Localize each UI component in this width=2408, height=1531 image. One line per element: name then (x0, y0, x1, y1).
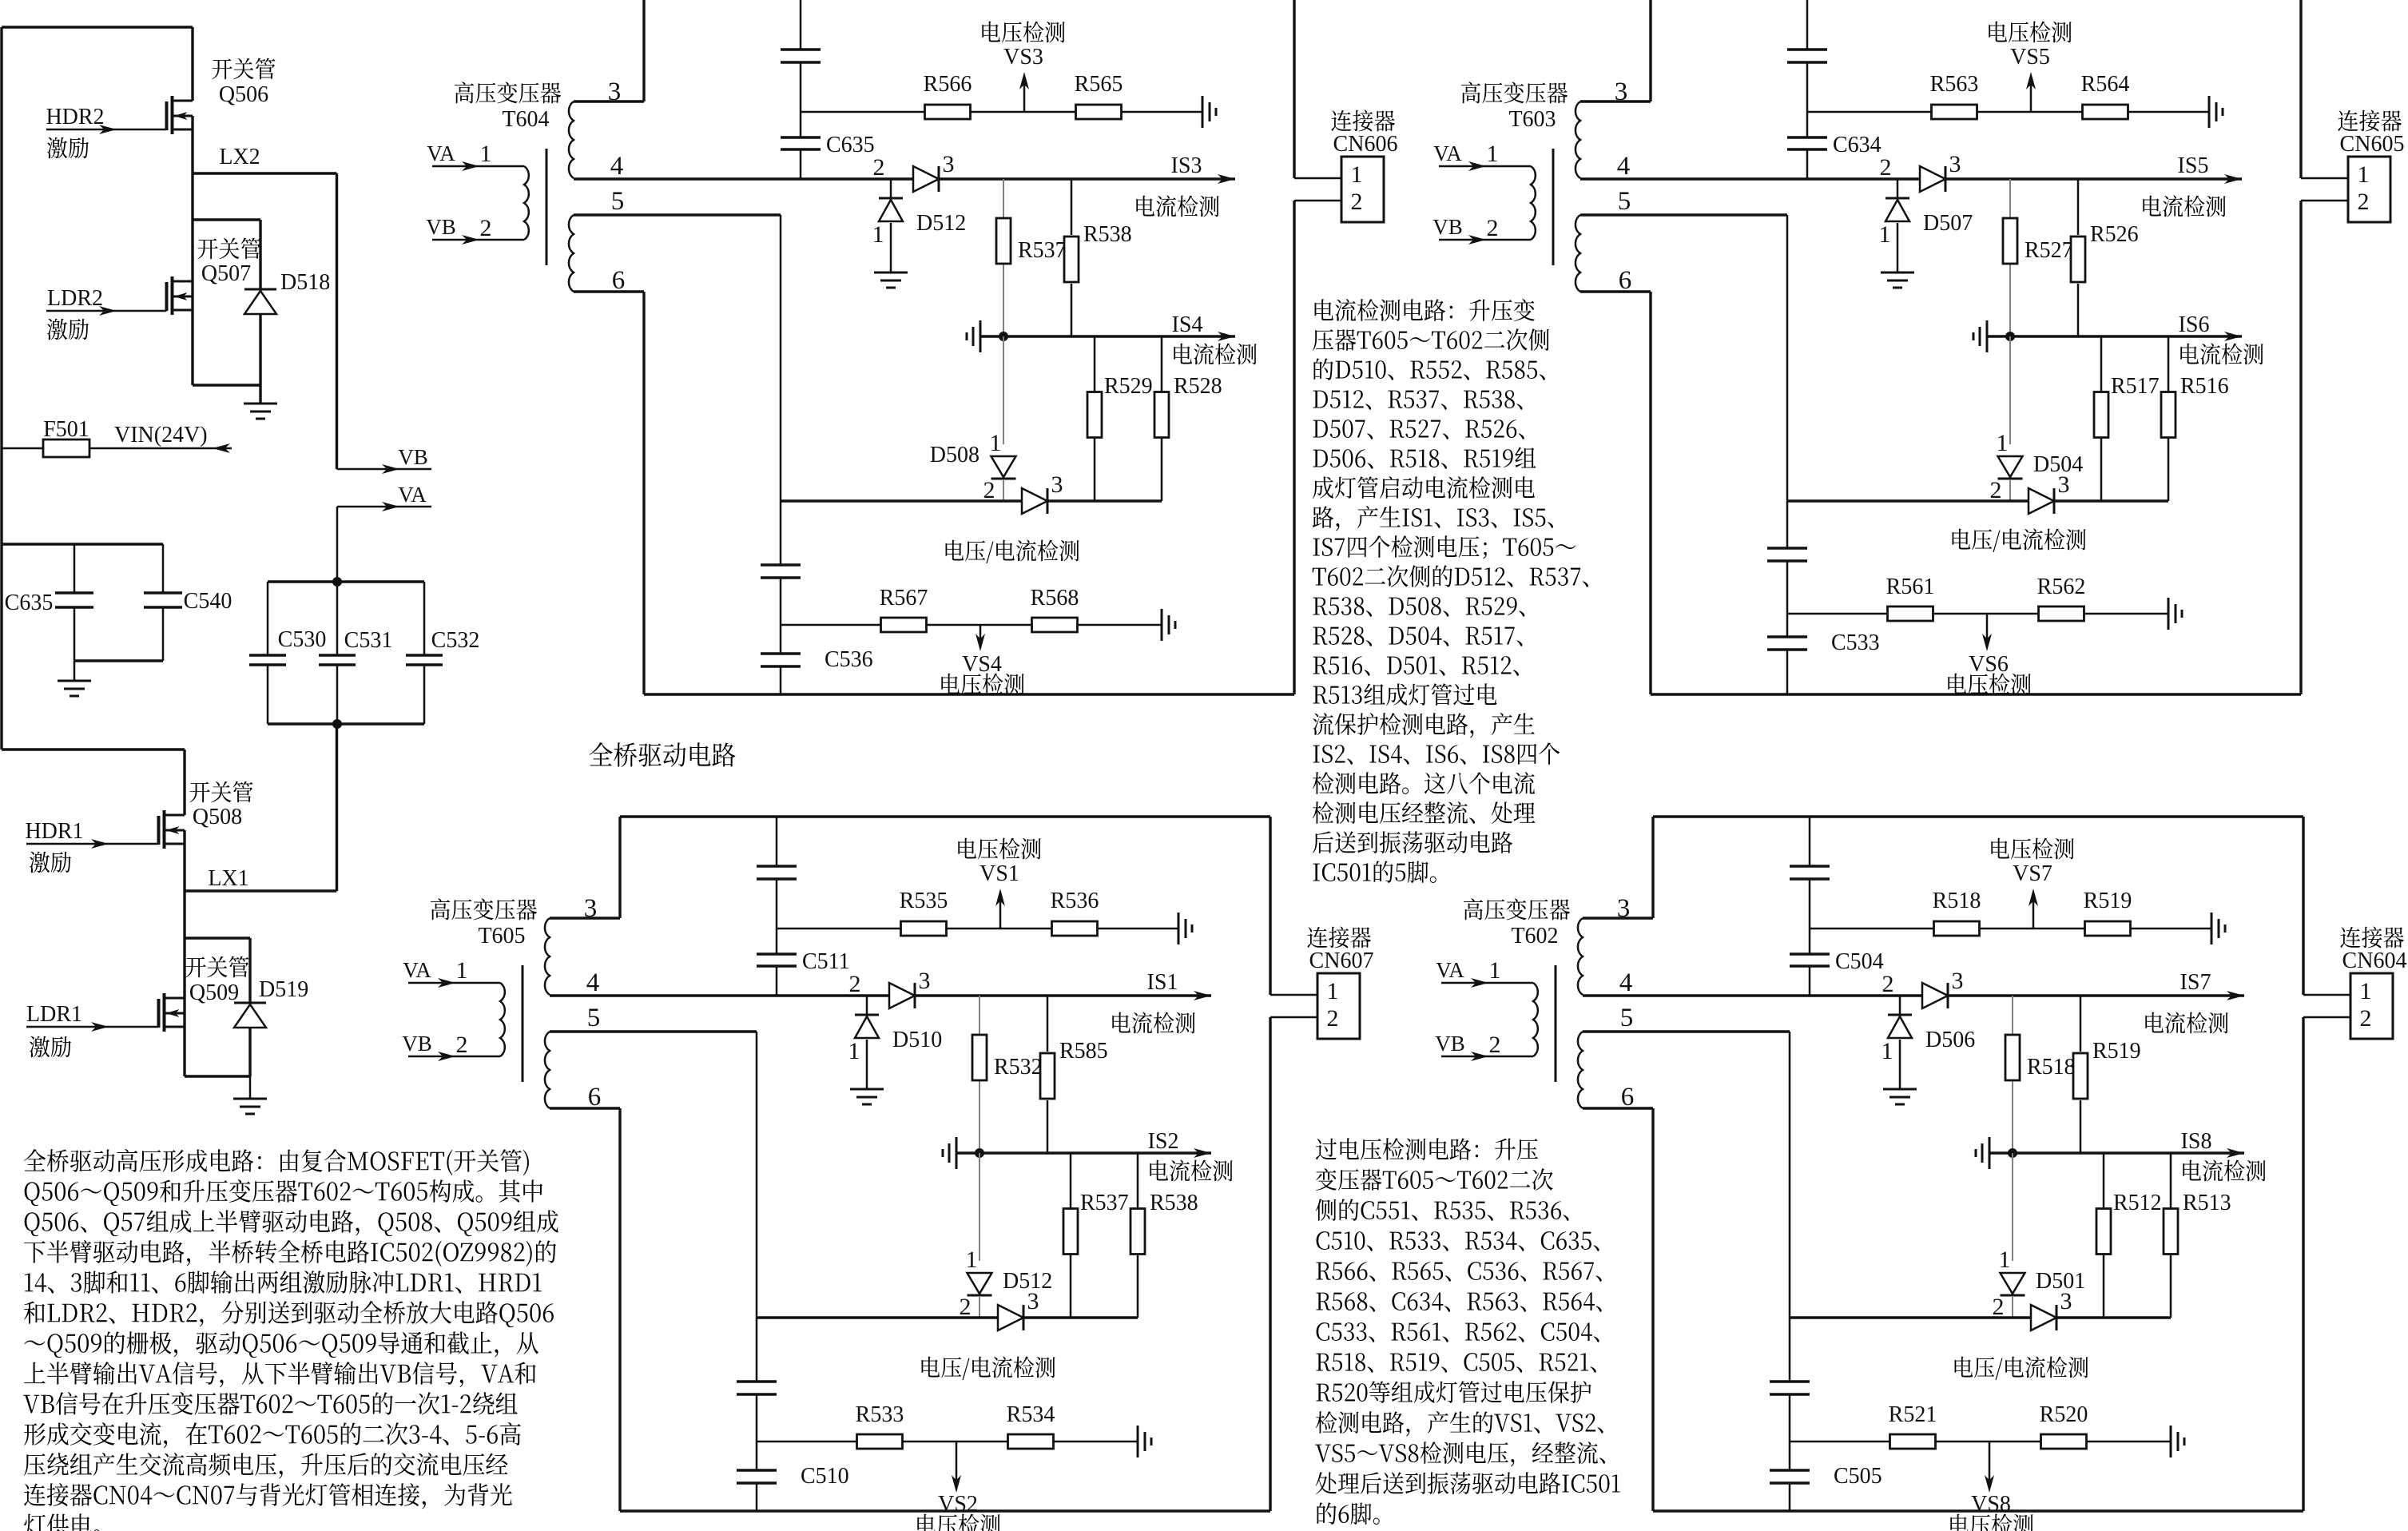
svg-text:2: 2 (480, 215, 492, 241)
pin 6 label (612, 266, 626, 295)
svg-text:CN607: CN607 (1309, 948, 1374, 973)
capacitor mid (unlabeled) (1767, 548, 1807, 561)
node VA bottom (332, 719, 342, 729)
svg-text:3: 3 (1949, 151, 1961, 177)
svg-text:2: 2 (1993, 1294, 2005, 1320)
svg-text:IS6: IS6 (2179, 312, 2210, 337)
svg-text:4: 4 (586, 968, 600, 997)
diode D508 (930, 430, 1016, 503)
svg-text:IS1: IS1 (1147, 970, 1178, 995)
pin 3 label (1615, 78, 1628, 106)
svg-text:D510: D510 (892, 1028, 942, 1052)
ground VS row (2209, 96, 2223, 128)
wire VS row (1807, 111, 2209, 113)
wire D-mid column (2012, 1153, 2013, 1318)
svg-text:Q509: Q509 (189, 980, 239, 1005)
resistor R513 (2164, 1153, 2231, 1318)
svg-text:VS8: VS8 (1971, 1492, 2011, 1517)
ground VS row (1202, 96, 1216, 128)
label IS bottom (1172, 312, 1257, 364)
capacitor top (unlabeled) (1787, 50, 1827, 62)
wire pin3 (550, 817, 620, 918)
svg-text:R563: R563 (1930, 72, 1979, 97)
svg-text:T602: T602 (1511, 924, 1558, 948)
svg-text:1: 1 (1351, 161, 1363, 188)
ground VS row (1178, 913, 1192, 944)
transistor Q509 (159, 993, 185, 1032)
svg-text:C505: C505 (1834, 1464, 1882, 1489)
svg-text:5: 5 (1620, 1004, 1634, 1032)
transformer T604 secondary coil 5-6 (569, 215, 574, 292)
wire connector pins (1270, 995, 1317, 1017)
label IS top (2143, 153, 2225, 217)
wire Q506-Q507 rail (191, 116, 193, 385)
node LX2 (219, 145, 260, 169)
wire IS bottom (980, 332, 1235, 341)
wire bottom border (1653, 1509, 2303, 1512)
wire D-mid column (2009, 336, 2011, 501)
svg-text:T604: T604 (502, 107, 549, 132)
diode D506 (1881, 996, 1976, 1089)
transformer T605 core (522, 965, 524, 1082)
wire connector pins (1294, 178, 1341, 201)
transformer T604 secondary coil 3-4 (569, 101, 574, 178)
svg-text:1: 1 (1881, 1038, 1893, 1064)
ground under Q507 (244, 385, 277, 419)
svg-text:HDR2: HDR2 (46, 105, 104, 129)
label Q506 (212, 58, 275, 107)
arrow VS1 (958, 838, 1040, 929)
svg-text:D518: D518 (280, 270, 330, 295)
wire HDR2 gate (46, 125, 167, 134)
transformer T605 secondary coil 5-6 (545, 1032, 550, 1108)
svg-text:2: 2 (849, 971, 861, 997)
wire VB (337, 445, 432, 474)
wire IS bottom (1989, 1148, 2244, 1158)
resistor R566 (924, 72, 972, 119)
svg-text:CN606: CN606 (1333, 132, 1398, 157)
diode D512 (960, 1247, 1053, 1320)
svg-text:HDR1: HDR1 (25, 819, 83, 844)
svg-text:C504: C504 (1835, 949, 1884, 974)
svg-text:4: 4 (1619, 968, 1633, 997)
wire VA primary T603 (1433, 141, 1531, 171)
arrow VS8 (1950, 1442, 2032, 1531)
wire pin4 main (1580, 174, 2242, 184)
resistor R585 (1040, 996, 1108, 1153)
svg-text:5: 5 (1618, 187, 1631, 216)
svg-text:1: 1 (1487, 141, 1499, 167)
svg-text:VIN(24V): VIN(24V) (114, 423, 208, 447)
svg-text:C540: C540 (184, 589, 232, 614)
pin 6 label (1619, 266, 1632, 295)
svg-text:VA: VA (403, 958, 431, 982)
svg-text:1: 1 (872, 221, 884, 248)
wire C-bank bottom rail (268, 722, 424, 725)
svg-text:2: 2 (1327, 1005, 1339, 1032)
svg-text:D508: D508 (930, 443, 979, 467)
wire pin4 main (1583, 991, 2244, 1000)
fuse F501 (2, 417, 232, 457)
svg-text:R537: R537 (1080, 1191, 1129, 1215)
label LDR1 (26, 1002, 82, 1057)
wire VB primary T604 (426, 215, 524, 245)
transformer T603 secondary coil 5-6 (1576, 215, 1580, 292)
diode D519 (234, 977, 308, 1028)
capacitor top (unlabeled) (757, 866, 797, 879)
node IS bottom (975, 1148, 984, 1158)
transformer T603 primary coil (1531, 166, 1536, 240)
wire pin5 (574, 215, 781, 694)
capacitor C511 (757, 949, 850, 974)
svg-text:LX1: LX1 (208, 866, 248, 891)
resistor R533 (856, 1402, 904, 1449)
wire bottom border (620, 1509, 1270, 1512)
wire lower detect (1790, 1316, 2171, 1318)
resistor R512 (2096, 1153, 2162, 1318)
svg-text:1: 1 (456, 957, 468, 984)
svg-text:C533: C533 (1831, 630, 1880, 655)
label IS bottom (1148, 1129, 1233, 1181)
svg-text:C532: C532 (431, 628, 480, 653)
transformer T603 label (1461, 82, 1568, 132)
wire Q508-Q509 rail (183, 830, 185, 1076)
label node 2 (1882, 971, 1894, 997)
wire VS row (801, 111, 1202, 113)
svg-text:C511: C511 (802, 949, 850, 974)
wire cap column (1809, 817, 1811, 996)
transformer T603 secondary coil 3-4 (1576, 101, 1580, 178)
resistor R562 (2037, 575, 2086, 621)
wire cap column (800, 0, 802, 179)
capacitor C533 (1767, 630, 1880, 655)
label V/I detect (1953, 528, 2086, 552)
wire right border (1269, 817, 1271, 1511)
svg-text:IS7: IS7 (2180, 970, 2211, 995)
transistor Q506 (167, 96, 193, 134)
resistor R518 (2005, 1035, 2076, 1080)
wire VS bottom row (757, 1441, 1138, 1443)
svg-text:C531: C531 (344, 628, 393, 653)
ground D510 (850, 1089, 884, 1104)
wire VA primary T602 (1436, 957, 1533, 988)
svg-text:IS2: IS2 (1148, 1129, 1179, 1154)
resistor R568 (1031, 586, 1079, 632)
wire VIN (114, 423, 230, 453)
wire D-mid column (979, 1153, 980, 1318)
wire IS bottom (956, 1148, 1211, 1158)
wire IS bottom (1987, 332, 2242, 341)
capacitor top (unlabeled) (1790, 866, 1830, 879)
svg-text:R537: R537 (1018, 238, 1067, 263)
transformer T602 secondary coil 3-4 (1578, 918, 1583, 995)
svg-text:T603: T603 (1508, 107, 1556, 132)
diode series top (1922, 968, 1964, 1008)
wire pin4 main (550, 991, 1211, 1000)
svg-text:C635: C635 (826, 133, 875, 157)
resistor R564 (2081, 72, 2130, 119)
capacitor C635 (input) (5, 544, 93, 661)
svg-text:2: 2 (1489, 1032, 1501, 1058)
svg-text:4: 4 (610, 152, 624, 181)
svg-text:Q508: Q508 (193, 805, 242, 829)
transformer T605 primary coil (500, 983, 505, 1056)
label V/I detect (922, 1356, 1055, 1380)
wire top border (2, 27, 193, 750)
wire connector pins (2303, 995, 2350, 1017)
svg-text:R535: R535 (900, 889, 948, 913)
capacitor C510 (737, 1464, 849, 1489)
svg-text:R565: R565 (1075, 72, 1123, 97)
wire Q508 top (2, 750, 185, 815)
pin 3 label (608, 78, 622, 106)
ground D506 (1883, 1089, 1917, 1104)
svg-text:3: 3 (2060, 1288, 2072, 1314)
label IS bottom (2181, 1129, 2266, 1181)
svg-text:2: 2 (1990, 477, 2002, 503)
pin 4 label (610, 152, 624, 181)
capacitor C635 (781, 133, 875, 157)
diode series top (1920, 151, 1961, 192)
svg-text:F501: F501 (43, 417, 89, 442)
svg-text:1: 1 (480, 141, 492, 167)
svg-text:2: 2 (2360, 1005, 2372, 1032)
wire cap rail top (2, 543, 163, 545)
capacitor C532 (406, 582, 479, 724)
svg-text:1: 1 (848, 1038, 860, 1064)
svg-text:5: 5 (611, 187, 625, 216)
pin 4 label (586, 968, 600, 997)
svg-text:2: 2 (960, 1294, 972, 1320)
svg-text:R538: R538 (1083, 222, 1132, 247)
transformer T603 core (1552, 149, 1555, 265)
capacitor C530 (249, 582, 326, 724)
wire VB primary T605 (402, 1032, 500, 1061)
wire bottom border (644, 693, 1294, 695)
transformer T604 label (455, 82, 561, 132)
wire VA primary T605 (403, 957, 500, 988)
arrow VS6 (1948, 614, 2030, 694)
connector CN606 (1331, 110, 1397, 222)
wire D-mid column (1003, 336, 1004, 501)
svg-text:R532: R532 (994, 1055, 1043, 1080)
ground VS bottom row (1138, 1426, 1151, 1457)
wire pin6 (1583, 1108, 1653, 1511)
pin 4 label (1619, 968, 1633, 997)
svg-text:3: 3 (1952, 968, 1964, 994)
svg-text:R536: R536 (1051, 889, 1099, 913)
capacitor C504 (1790, 949, 1884, 974)
svg-text:R512: R512 (2113, 1191, 2162, 1215)
transformer T605 label (431, 898, 537, 948)
label node 2 (873, 154, 885, 181)
ground IS row (943, 1137, 956, 1169)
svg-text:VB: VB (402, 1032, 432, 1056)
resistor R532 (972, 1035, 1043, 1080)
svg-text:R518: R518 (1933, 889, 1981, 913)
svg-text:VS7: VS7 (2013, 861, 2052, 886)
svg-text:3: 3 (919, 968, 931, 994)
svg-text:3: 3 (1027, 1288, 1039, 1314)
wire pin5 (550, 1032, 757, 1511)
resistor R519 (2084, 889, 2132, 936)
wire Q506 drain rail (191, 27, 193, 101)
diode D518 (244, 270, 330, 314)
svg-text:2: 2 (1487, 215, 1499, 241)
svg-text:1: 1 (990, 430, 1002, 456)
svg-text:2: 2 (2358, 189, 2370, 215)
svg-text:D507: D507 (1923, 211, 1973, 236)
ground input caps (58, 661, 91, 696)
wire cap column (1806, 0, 1809, 179)
pin 3 label (584, 894, 598, 923)
wire LDR1 gate (26, 1022, 159, 1032)
svg-text:VA: VA (398, 483, 427, 507)
resistor R516 (2161, 336, 2229, 501)
pin 6 label (588, 1083, 602, 1111)
pin 6 label (1621, 1083, 1635, 1111)
wire lower detect (757, 1316, 1138, 1318)
capacitor C540 (144, 544, 232, 661)
svg-text:IS8: IS8 (2181, 1129, 2212, 1154)
node IS bottom (2005, 332, 2015, 341)
svg-text:LDR1: LDR1 (26, 1002, 82, 1027)
wire cap rail bottom (74, 659, 163, 662)
resistor R537 (996, 218, 1067, 264)
svg-text:IS4: IS4 (1172, 312, 1203, 337)
svg-text:D519: D519 (259, 977, 308, 1002)
svg-text:3: 3 (2058, 471, 2070, 498)
wire LX2 (193, 173, 337, 469)
wire VA to LX1 (336, 724, 338, 891)
node IS bottom (2008, 1148, 2017, 1158)
resistor R526 (2071, 179, 2139, 336)
diode D507 (1879, 179, 1973, 272)
resistor R521 (1889, 1402, 1937, 1449)
svg-text:R519: R519 (2092, 1039, 2141, 1064)
label HDR2 (46, 105, 104, 158)
resistor R538 (1130, 1153, 1198, 1318)
transformer T604 primary coil (524, 166, 529, 240)
diode series lower (2031, 1288, 2072, 1330)
pin 5 label (587, 1004, 601, 1032)
wire pin3 (1583, 817, 1653, 918)
svg-text:C510: C510 (801, 1464, 849, 1489)
label HDR1 (25, 819, 83, 873)
wire block top border (1653, 815, 2303, 817)
resistor R527 (2003, 218, 2073, 264)
diode series lower (998, 1288, 1039, 1330)
arrow VS4 (941, 625, 1023, 694)
svg-text:R526: R526 (2090, 222, 2139, 247)
diode series top (889, 968, 931, 1008)
svg-text:C536: C536 (825, 647, 873, 672)
svg-text:VB: VB (398, 445, 428, 469)
wire LX1 (185, 889, 337, 892)
svg-text:R561: R561 (1886, 575, 1935, 599)
transformer T602 label (1464, 898, 1570, 948)
resistor R538 (1064, 179, 1132, 336)
resistor R535 (900, 889, 948, 936)
wire connector pins (2301, 178, 2348, 201)
svg-text:1: 1 (2358, 161, 2370, 188)
svg-text:VB: VB (426, 215, 456, 239)
wire VB primary T603 (1432, 215, 1531, 245)
svg-text:C635: C635 (5, 591, 54, 615)
svg-text:VS1: VS1 (979, 861, 1019, 886)
svg-text:VS4: VS4 (962, 652, 1002, 677)
svg-text:D506: D506 (1925, 1028, 1975, 1052)
svg-text:2: 2 (983, 477, 995, 503)
pin 5 label (611, 187, 625, 216)
connector CN605 (2338, 110, 2404, 222)
svg-text:D512: D512 (916, 211, 966, 236)
transformer T605 secondary coil 3-4 (545, 918, 550, 995)
svg-text:R538: R538 (1150, 1191, 1198, 1215)
wire pin5 (1580, 215, 1787, 694)
pin 5 label (1618, 187, 1631, 216)
svg-text:Q507: Q507 (201, 261, 251, 286)
label IS bottom (2179, 312, 2263, 364)
transistor Q508 (159, 810, 185, 849)
wire R-mid column (2012, 996, 2013, 1153)
resistor R536 (1051, 889, 1099, 936)
resistor R528 (1154, 336, 1222, 501)
capacitor C536 (761, 647, 873, 672)
label IS top (1112, 970, 1194, 1033)
svg-text:VS6: VS6 (1969, 652, 2009, 677)
capacitor C505 (1770, 1464, 1882, 1489)
pin 5 label (1620, 1004, 1634, 1032)
resistor R529 (1087, 336, 1153, 501)
wire VS row (777, 928, 1178, 930)
resistor R567 (880, 586, 928, 632)
ground VS bottom row (2171, 1426, 2184, 1457)
diode series lower (1022, 471, 1063, 514)
svg-text:CN604: CN604 (2342, 948, 2407, 973)
arrow VS3 (982, 22, 1064, 112)
diode D504 (1990, 430, 2084, 503)
svg-text:R528: R528 (1174, 374, 1222, 399)
wire R-mid column (979, 996, 980, 1153)
label section title (590, 742, 736, 767)
wire pin6 (550, 1108, 620, 1511)
wire pin3 (574, 0, 644, 101)
svg-text:R585: R585 (1059, 1039, 1108, 1064)
connector CN604 (2340, 927, 2406, 1039)
pin 4 label (1617, 152, 1631, 181)
svg-text:VB: VB (1435, 1032, 1465, 1056)
label V/I detect (946, 539, 1079, 563)
label Q509 (185, 956, 248, 1005)
connector CN607 (1307, 927, 1373, 1039)
svg-text:3: 3 (1051, 471, 1063, 498)
wire pin3 (1580, 0, 1651, 101)
svg-text:R533: R533 (856, 1402, 904, 1427)
wire C-bank top rail (268, 580, 424, 583)
label IS top (2145, 970, 2227, 1033)
node IS bottom (999, 332, 1008, 341)
ground IS row (967, 320, 980, 352)
svg-text:R534: R534 (1007, 1402, 1055, 1427)
wire pin5 (1583, 1032, 1790, 1511)
resistor R565 (1075, 72, 1123, 119)
label Q508 (189, 781, 252, 829)
svg-text:4: 4 (1617, 152, 1631, 181)
svg-text:R564: R564 (2081, 72, 2130, 97)
wire pin4 main (574, 174, 1235, 184)
wire D519 box (185, 938, 250, 1076)
